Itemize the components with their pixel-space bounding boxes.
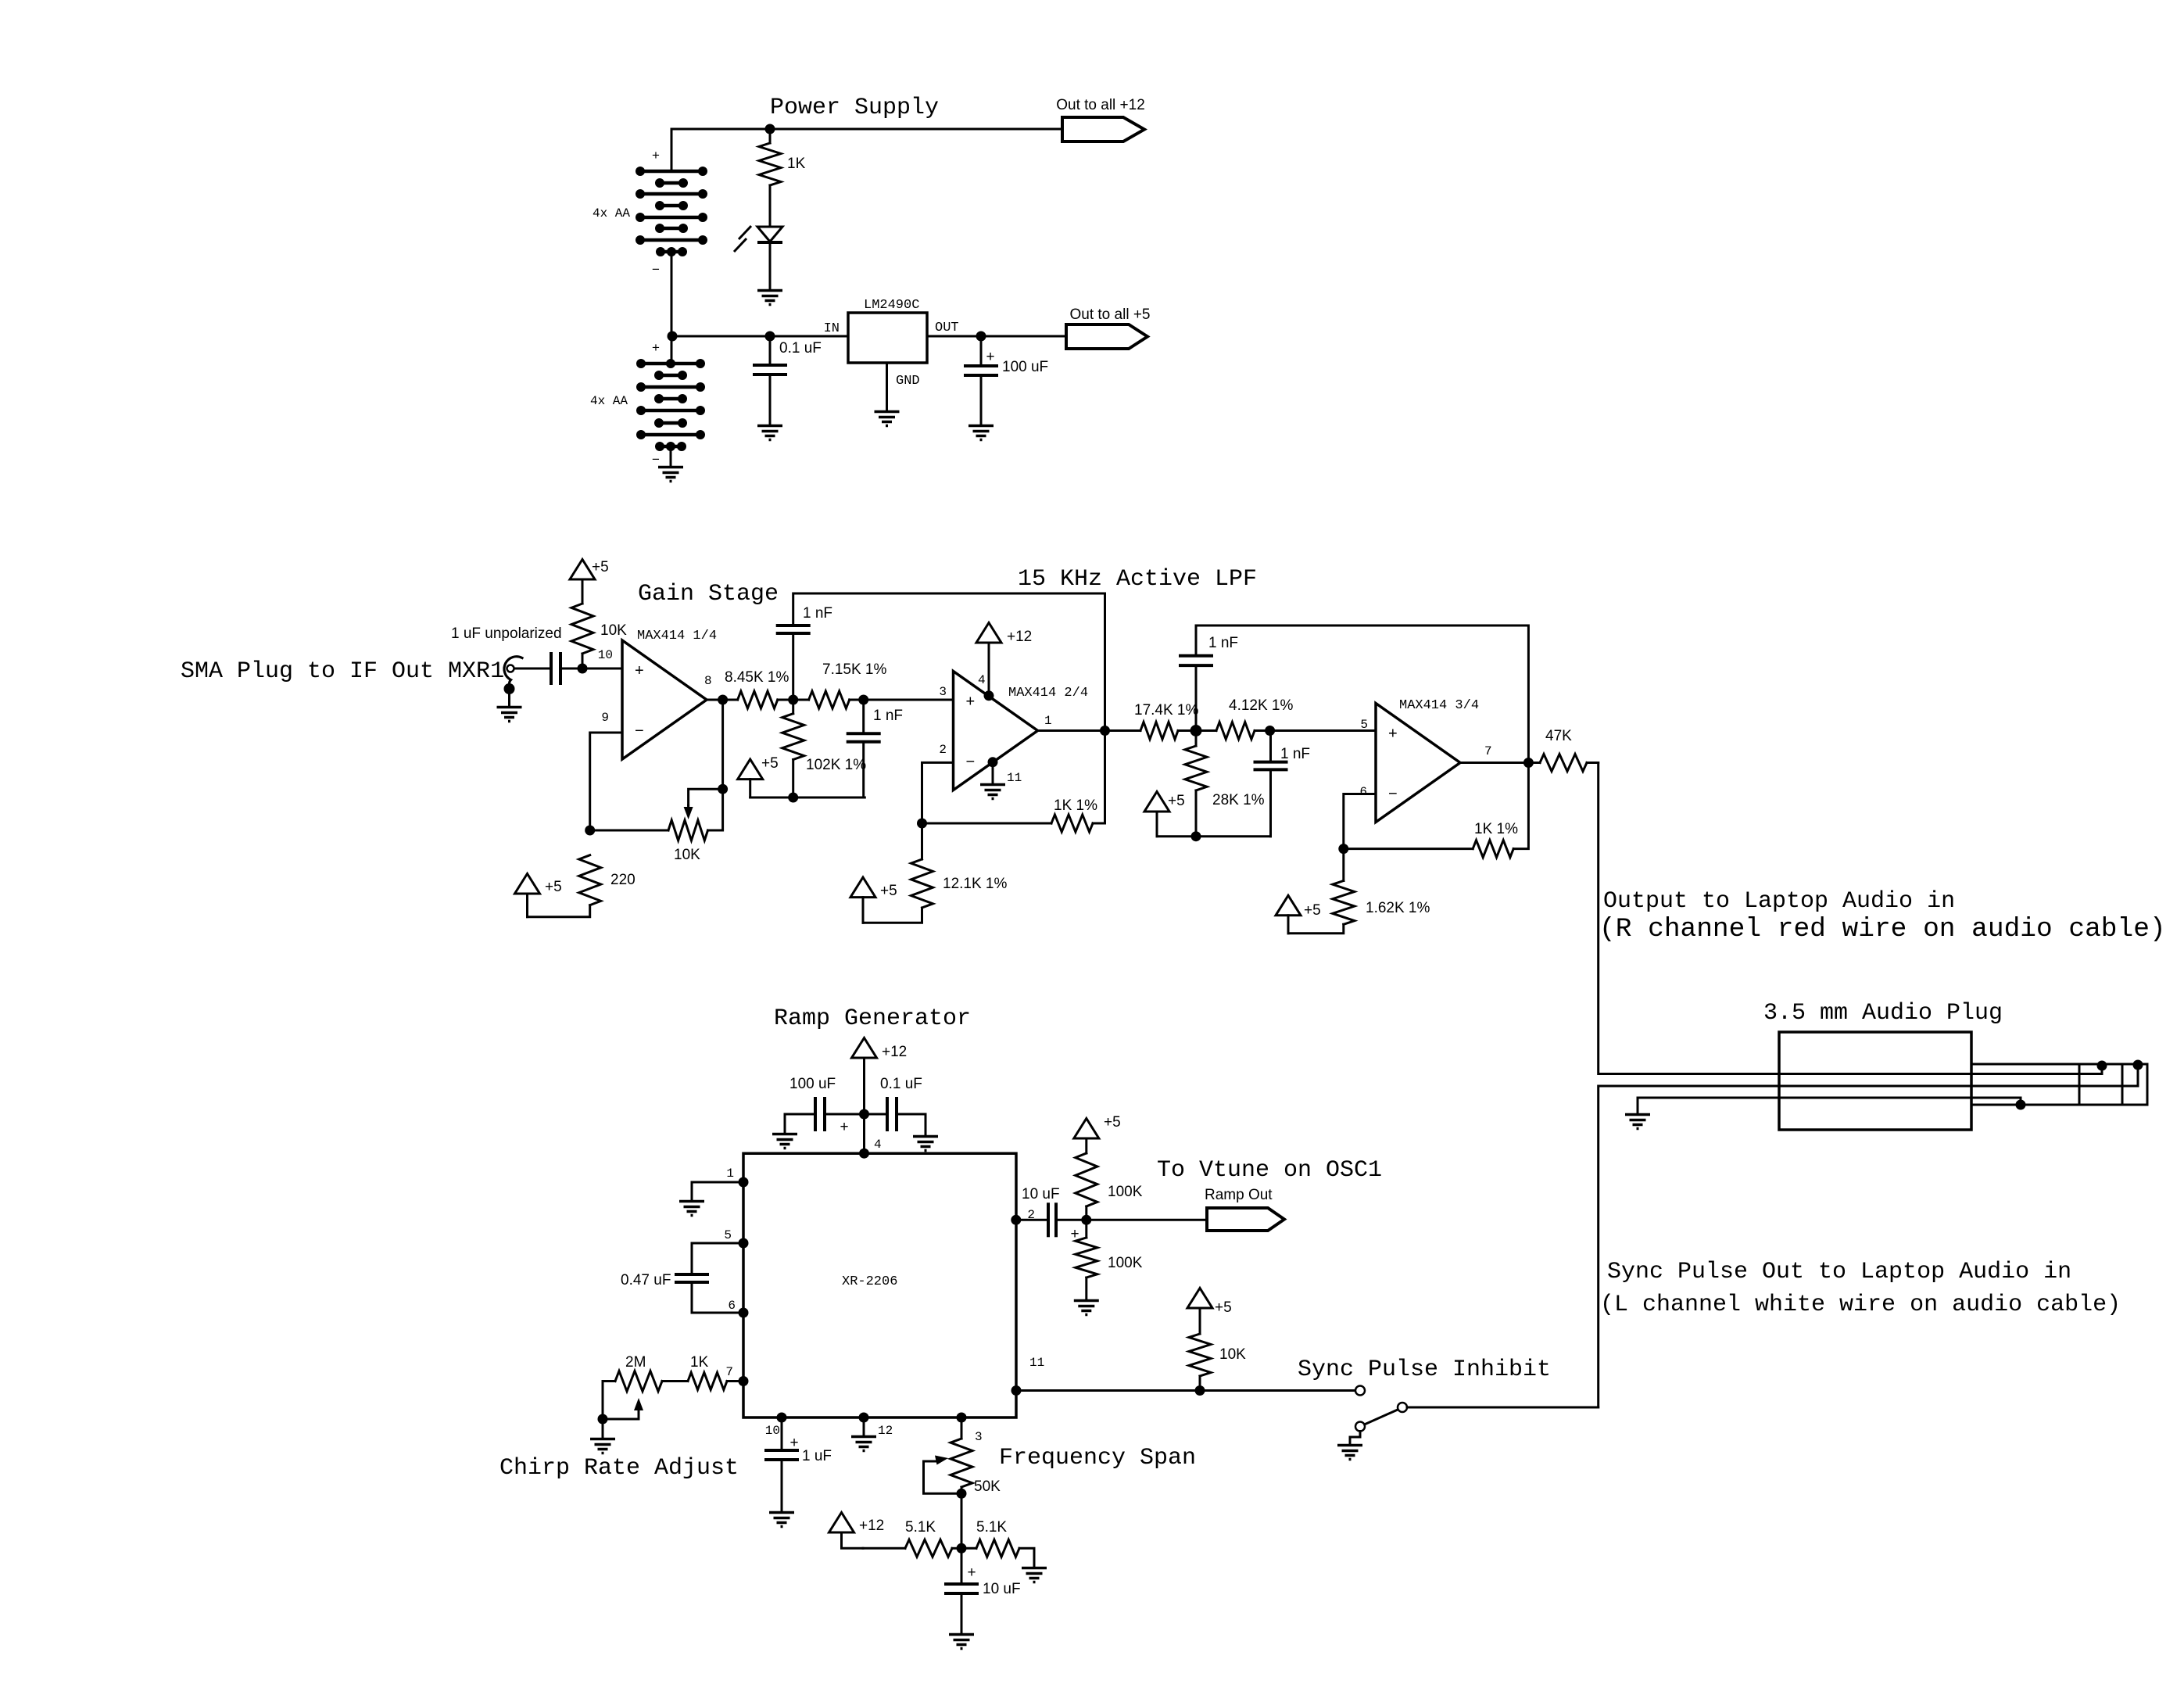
node U2B input junction [858,695,868,705]
wire B2 to ground [670,446,672,466]
svg-text:Out to all +12: Out to all +12 [1056,97,1145,113]
ground switch [1337,1446,1362,1460]
wire 102K bottom rail [750,797,865,799]
switch SW1 common contact [1398,1403,1407,1412]
LED D1 [757,227,782,242]
node pin 5 [739,1238,749,1249]
node ramp out junction [1081,1215,1091,1225]
svg-text:SMA Plug to IF Out MXR1: SMA Plug to IF Out MXR1 [181,658,504,685]
node +12 rail junction [765,124,775,134]
svg-text:28K 1%: 28K 1% [1212,792,1265,808]
op-amp U2A MAX414 1/4 [622,640,707,759]
wire to U2C noninverting [1255,729,1376,732]
wire U2C output [1460,762,1541,764]
node bypass junction [859,1109,869,1120]
svg-text:OUT: OUT [935,321,959,335]
wire +12 rail [671,129,1062,171]
wire switch to ground [1350,1432,1360,1445]
ground LED [757,291,782,305]
wire U2B inverting input [922,762,954,823]
svg-text:100K: 100K [1108,1184,1143,1200]
ground pin 12 [851,1437,876,1451]
node pin 6 [739,1308,749,1318]
svg-text:1K 1%: 1K 1% [1474,821,1518,837]
svg-text:5: 5 [724,1228,732,1242]
wire battery to regulator IN [672,335,848,338]
svg-text:2M: 2M [625,1354,646,1371]
svg-text:−: − [652,452,660,467]
svg-text:Sync Pulse Out to Laptop Audio: Sync Pulse Out to Laptop Audio in [1607,1259,2071,1285]
svg-text:+5: +5 [1304,902,1321,919]
svg-text:4x AA: 4x AA [593,206,630,220]
svg-text:100 uF: 100 uF [1002,359,1048,375]
svg-text:+: + [635,662,644,679]
node 100uF junction [976,332,986,342]
svg-text:+5: +5 [545,879,562,895]
ground SMA [497,708,522,722]
ground 10uF divider [949,1635,974,1649]
wire 8.45K to 7.15K [778,699,809,701]
node feedback junction [585,826,595,836]
node 10K sync junction [1195,1385,1205,1396]
power +5 (sync) [1187,1288,1212,1309]
svg-text:3: 3 [939,685,947,699]
svg-text:0.1 uF: 0.1 uF [779,340,822,357]
resistor 47K [1540,754,1587,772]
node U2B pin11 [988,757,998,767]
ground 0.1uF bypass [913,1137,938,1151]
svg-text:+12: +12 [1007,629,1032,645]
connector plug shaft [1971,1063,2147,1066]
svg-text:10 uF: 10 uF [1022,1186,1060,1202]
wire SMA to ground [508,689,510,706]
node plug ring tap [2097,1061,2107,1071]
resistor 100K (lower) [1085,1220,1087,1238]
regulator U1 LM2490C [848,313,927,363]
wire C1 to op-amp U2A + [560,668,622,670]
wire U2B output [1038,729,1141,732]
potentiometer 10K (gain) [590,830,668,832]
wire U2C inverting input [1344,794,1376,849]
node 50K bottom junction [957,1489,967,1499]
node U2B output junction [1100,726,1110,736]
capacitor 0.1 uF (input) [769,336,772,365]
wire U2B pin11 stub [992,762,994,783]
svg-text:10: 10 [765,1424,780,1438]
svg-text:7: 7 [1484,744,1492,758]
svg-text:6: 6 [728,1299,736,1313]
svg-text:9: 9 [601,711,609,725]
svg-text:17.4K 1%: 17.4K 1% [1134,702,1198,719]
svg-text:(L channel white wire on audio: (L channel white wire on audio cable) [1600,1292,2121,1318]
resistor 1.62K 1% [1342,849,1344,881]
flag Out to all +5 [1066,324,1147,349]
svg-text:1 nF: 1 nF [803,605,832,622]
wire feedback rail U2B [792,633,794,700]
wire battery interconnect [671,252,673,364]
capacitor 1 nF (U2C loop) [1179,654,1213,658]
capacitor 100 uF (bypass) [825,1113,865,1116]
capacitor 100 uF (output) [980,336,983,366]
svg-text:1 uF: 1 uF [802,1448,832,1464]
node 0.1uF junction [765,332,775,342]
svg-text:50K: 50K [974,1478,1001,1495]
flag Ramp Out [1207,1208,1284,1231]
ground 100uF [968,426,994,440]
wire ramp out to flag [1087,1219,1207,1221]
node bias junction pin10 [578,664,588,674]
svg-text:1: 1 [726,1167,734,1181]
power +5 (1.62K) [1276,895,1301,916]
ground audio plug [1625,1115,1650,1129]
svg-text:5.1K: 5.1K [905,1519,936,1536]
svg-text:XR-2206: XR-2206 [842,1274,897,1289]
ground 0.1uF [757,426,782,440]
svg-text:(R channel red wire on audio c: (R channel red wire on audio cable) [1599,914,2166,944]
svg-text:1 nF: 1 nF [873,708,903,724]
resistor 5.1K (left) [863,1547,905,1550]
svg-text:Power Supply: Power Supply [770,95,939,121]
ground 100uF bypass [772,1134,797,1149]
resistor 12.1K 1% [921,823,923,859]
switch SW1 ground contact [1355,1422,1365,1432]
node pin 2 [1011,1215,1021,1225]
node U2C input junction [1265,726,1275,736]
wire 2M to ground [602,1419,604,1438]
capacitor 1 uF (pin 10) [781,1417,783,1450]
resistor 1K (chirp) [688,1373,727,1390]
wire LED cathode [769,242,772,289]
wire 50K to divider [961,1493,963,1548]
svg-text:+5: +5 [880,883,897,899]
capacitor 1 nF (U2B loop) [776,624,811,627]
svg-text:1K 1%: 1K 1% [1054,797,1097,814]
ground U2B pin11 [980,785,1005,799]
switch SW1 throw contact [1355,1386,1365,1396]
node regulator input junction [668,332,678,342]
svg-text:6: 6 [1359,785,1367,799]
power +5 (100K) [1074,1119,1099,1139]
svg-text:12.1K 1%: 12.1K 1% [943,876,1007,892]
resistor 5.1K (right) [961,1547,976,1550]
svg-text:GND: GND [896,374,920,389]
svg-text:1 nF: 1 nF [1280,746,1310,762]
svg-text:+12: +12 [882,1044,907,1060]
svg-text:100K: 100K [1108,1255,1143,1271]
svg-text:+: + [966,693,976,711]
node U2C fb junction [1338,844,1348,854]
resistor 1K 1% (U2C fb) [1344,848,1473,850]
power +5 (12.1K) [850,877,875,898]
svg-text:Frequency Span: Frequency Span [999,1445,1196,1471]
svg-text:IN: IN [824,321,840,336]
svg-text:12: 12 [878,1424,893,1438]
node 102K bottom junction [788,793,798,803]
svg-text:Out to all +5: Out to all +5 [1070,306,1151,323]
capacitor 1 nF (U2C input) [1269,731,1272,762]
svg-text:Ramp Generator: Ramp Generator [774,1005,971,1032]
capacitor C1 1 uF unpolarized [550,652,553,685]
node U2B fb junction [917,819,927,829]
resistor 4.12K 1% [1216,722,1255,740]
wire to U2B noninverting [850,699,954,701]
svg-text:−: − [635,722,644,740]
ground regulator [875,412,900,426]
svg-text:5.1K: 5.1K [976,1519,1007,1536]
capacitor 0.47 uF (pins 5-6) [692,1243,743,1274]
svg-text:+5: +5 [1168,793,1185,809]
wire regulator GND stub [886,363,888,410]
connector 3.5mm audio plug body [1779,1032,1971,1130]
svg-text:−: − [1388,786,1398,803]
node LPF2 junction [1190,725,1202,736]
svg-text:8.45K 1%: 8.45K 1% [725,669,789,686]
svg-text:3.5 mm Audio Plug: 3.5 mm Audio Plug [1763,1000,2003,1027]
svg-text:2: 2 [939,743,947,757]
svg-text:4: 4 [874,1138,882,1152]
node divider junction [957,1543,967,1554]
wire SMA to C1 [514,668,551,670]
svg-text:LM2490C: LM2490C [864,298,919,313]
resistor 100K (upper) [1085,1138,1087,1153]
svg-text:1K: 1K [787,156,806,172]
svg-text:15 KHz Active LPF: 15 KHz Active LPF [1018,566,1257,593]
svg-text:1.62K 1%: 1.62K 1% [1366,900,1430,916]
ground 1uF [769,1513,794,1527]
svg-text:10: 10 [598,648,613,662]
switch SW1 blade [1366,1410,1398,1425]
potentiometer 2M (chirp rate) [662,1380,688,1382]
svg-text:220: 220 [610,872,636,888]
svg-text:8: 8 [704,674,712,688]
svg-text:7: 7 [725,1365,733,1379]
svg-text:7.15K 1%: 7.15K 1% [822,661,886,678]
wire plug ground [1638,1098,2021,1113]
connector J1 SMA plug [507,665,514,672]
node pot top junction [718,784,728,794]
battery B1 4x AA [636,167,707,256]
svg-text:1K: 1K [690,1354,709,1371]
potentiometer 50K (frequency span) [961,1417,963,1439]
svg-text:47K: 47K [1545,728,1572,744]
svg-text:4.12K 1%: 4.12K 1% [1229,697,1293,714]
node pin 1 [739,1177,749,1188]
svg-text:1 nF: 1 nF [1208,635,1238,651]
svg-text:10 uF: 10 uF [983,1581,1021,1597]
svg-text:MAX414 1/4: MAX414 1/4 [637,629,717,643]
ground 100K lower [1074,1301,1099,1315]
svg-text:3: 3 [975,1430,983,1444]
node plug tip tap [2133,1060,2143,1070]
ground 5.1K [1022,1568,1047,1582]
resistor 17.4K 1% [1140,722,1178,740]
svg-text:0.47 uF: 0.47 uF [621,1272,671,1288]
svg-text:11: 11 [1007,771,1022,785]
svg-text:+: + [840,1119,848,1135]
wire U2A output to pot [721,700,724,789]
svg-text:+5: +5 [1215,1299,1232,1316]
ground battery B2 [658,468,683,482]
node U2A output [718,695,728,705]
svg-text:102K 1%: 102K 1% [806,757,866,773]
resistor 1K (LED) [769,129,772,143]
battery B2 4x AA [636,359,705,451]
wire output to plug [1599,763,2102,1074]
wire feedback rail U2C [1195,665,1198,730]
wire switch to sync line [1407,1407,1599,1409]
svg-text:−: − [966,754,976,771]
capacitor 10 uF (divider) [961,1548,963,1584]
resistor 7.15K 1% [809,691,850,708]
IC XR-2206 [743,1153,1016,1417]
power +5 (10K bias) [570,560,595,580]
power +5 (28K) [1144,792,1169,812]
svg-text:+5: +5 [1104,1114,1121,1131]
resistor 28K 1% [1195,731,1198,747]
flag Out to all +12 [1062,117,1144,142]
resistor 8.45K 1% [738,691,778,708]
capacitor 1 nF (U2B input) [862,700,865,733]
svg-text:+: + [652,148,660,163]
wire sync to plug [1599,1065,2138,1407]
svg-text:4: 4 [978,673,986,687]
svg-text:Chirp Rate Adjust: Chirp Rate Adjust [499,1455,739,1482]
node pin 7 [739,1376,749,1386]
power +12 (XR-2206) [852,1038,877,1059]
node plug sleeve tap [2016,1100,2026,1110]
ground 2M [590,1439,615,1453]
capacitor 10 uF (ramp out) [1016,1219,1048,1221]
svg-text:+12: +12 [859,1518,884,1534]
wire pin 1 stub [692,1182,743,1200]
svg-text:+: + [1388,726,1398,743]
node pin 10 [777,1413,787,1423]
node pin 3 [957,1413,967,1423]
node U2C output junction [1523,758,1534,768]
node SMA ground dot [504,683,515,694]
wire U2A inverting input [590,733,622,830]
node 2M ground junction [598,1414,608,1425]
node pin 11 xr [1011,1385,1022,1396]
power +12 (divider) [829,1513,854,1533]
svg-text:10K: 10K [600,622,627,639]
svg-text:11: 11 [1029,1356,1044,1370]
wire pin 12 stub [863,1417,865,1435]
node pin 4 [859,1149,869,1159]
svg-text:100 uF: 100 uF [789,1076,836,1092]
svg-text:To Vtune on OSC1: To Vtune on OSC1 [1157,1157,1382,1184]
resistor 10K (bias) [582,580,584,604]
ground pin 1 [679,1202,704,1216]
resistor 102K 1% [792,700,794,714]
svg-text:1 uF unpolarized: 1 uF unpolarized [451,625,562,642]
svg-text:1: 1 [1044,714,1052,728]
resistor 10K (sync pullup) [1199,1308,1201,1334]
svg-text:−: − [652,262,660,277]
svg-text:+: + [986,349,994,365]
svg-text:+5: +5 [592,559,609,575]
svg-text:Output to Laptop Audio in: Output to Laptop Audio in [1603,888,1955,915]
power +5 (102K) [738,759,763,779]
wire 28K bottom rail [1157,835,1271,837]
svg-text:5: 5 [1360,718,1368,732]
resistor 220 [579,855,601,905]
op-amp U2C MAX414 3/4 [1376,704,1460,822]
capacitor 0.1 uF (bypass) [865,1113,888,1116]
svg-text:Sync Pulse Inhibit: Sync Pulse Inhibit [1298,1356,1551,1383]
svg-text:+: + [789,1435,798,1451]
power +12 (U2B) [976,623,1001,643]
svg-text:Ramp Out: Ramp Out [1205,1187,1273,1203]
svg-text:+5: +5 [761,755,779,772]
svg-text:MAX414 2/4: MAX414 2/4 [1008,686,1088,701]
wire pin 11 to switch [1016,1389,1355,1392]
wire 17.4K to 4.12K [1178,729,1216,732]
wire regulator OUT to +5 flag [927,335,1066,338]
svg-text:Gain Stage: Gain Stage [638,581,779,607]
resistor 1K 1% (U2B fb) [922,822,1052,825]
svg-text:+: + [967,1564,976,1581]
svg-text:+: + [652,340,660,355]
svg-text:0.1 uF: 0.1 uF [880,1076,922,1092]
node mid junction [788,695,798,705]
node U2B pin4 [984,690,994,701]
power +5 (220) [515,874,540,894]
svg-text:10K: 10K [674,847,700,863]
svg-text:MAX414 3/4: MAX414 3/4 [1399,698,1479,713]
svg-text:10K: 10K [1219,1346,1246,1363]
op-amp U2B MAX414 2/4 [954,672,1038,790]
wire U2A output [707,699,738,701]
node pin 12 [859,1413,869,1423]
node 28K bottom junction [1191,831,1201,841]
svg-text:4x AA: 4x AA [590,394,628,408]
